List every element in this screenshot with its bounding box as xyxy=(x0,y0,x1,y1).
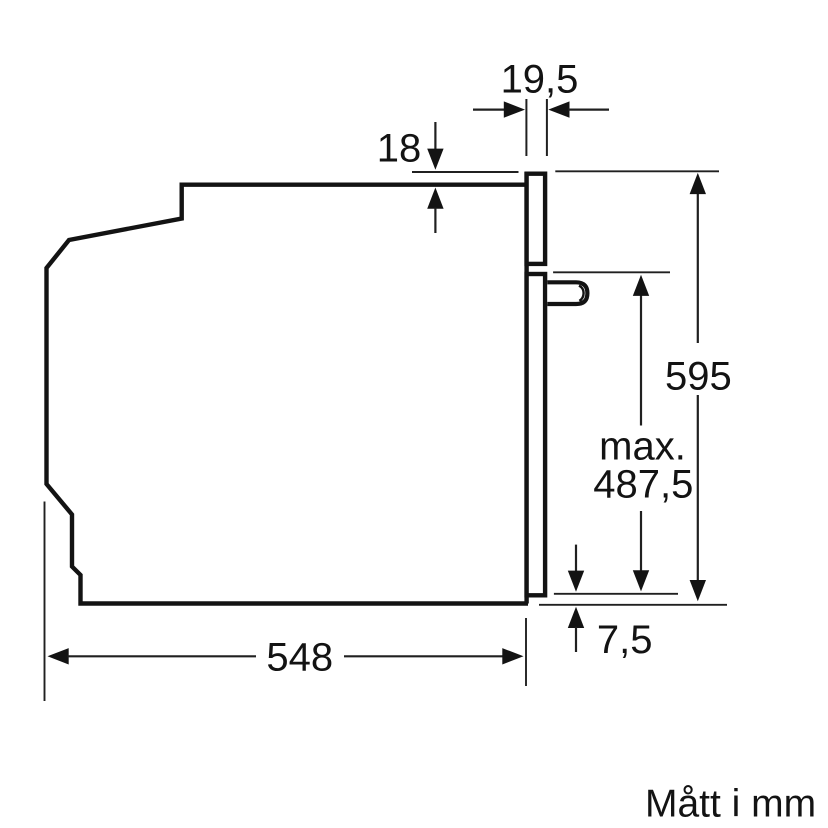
svg-text:7,5: 7,5 xyxy=(597,618,653,662)
dim 595 line upper xyxy=(697,192,699,343)
svg-text:18: 18 xyxy=(377,127,422,171)
oven bottom extension line xyxy=(539,604,727,606)
dim 19,5 extension line left xyxy=(525,99,527,156)
dim 487,5 line upper xyxy=(640,294,642,426)
dim 19,5 extension line right xyxy=(546,99,548,156)
dim 18 up arrow xyxy=(427,188,443,234)
door upper section xyxy=(527,174,546,264)
dim 19,5 left arrow xyxy=(473,101,525,117)
dim 595 line lower xyxy=(697,395,699,582)
svg-text:548: 548 xyxy=(266,636,333,680)
dim 7,5 down arrow xyxy=(568,545,584,592)
dim 548 extension line right xyxy=(525,618,527,686)
svg-text:19,5: 19,5 xyxy=(501,58,579,102)
svg-text:487,5: 487,5 xyxy=(593,463,693,507)
dim 487,5 down arrow xyxy=(633,570,649,591)
handle cap inner arc xyxy=(579,286,584,301)
dim max 487,5 extension line xyxy=(553,271,670,273)
dim 595 down arrow xyxy=(690,580,706,601)
oven body outline xyxy=(47,185,529,604)
dim 548 right arrow xyxy=(344,648,524,664)
svg-text:595: 595 xyxy=(665,355,732,399)
door lower section xyxy=(527,274,546,595)
door bottom extension line xyxy=(554,593,678,595)
dim 18 extension line xyxy=(412,171,519,173)
dim 595 up arrow xyxy=(690,173,706,194)
svg-text:Mått i mm: Mått i mm xyxy=(645,783,816,826)
dim 487,5 up arrow xyxy=(633,275,649,296)
dim 548 extension line left xyxy=(44,502,46,702)
dim 595 extension line xyxy=(555,170,719,172)
dim 7,5 up arrow xyxy=(568,607,584,652)
dim 548 left arrow xyxy=(48,648,257,664)
dim 19,5 right arrow xyxy=(548,101,609,117)
dim 18 down arrow xyxy=(427,122,443,170)
door back wall xyxy=(524,172,528,604)
dim 487,5 line lower xyxy=(640,511,642,572)
door handle xyxy=(547,282,587,304)
